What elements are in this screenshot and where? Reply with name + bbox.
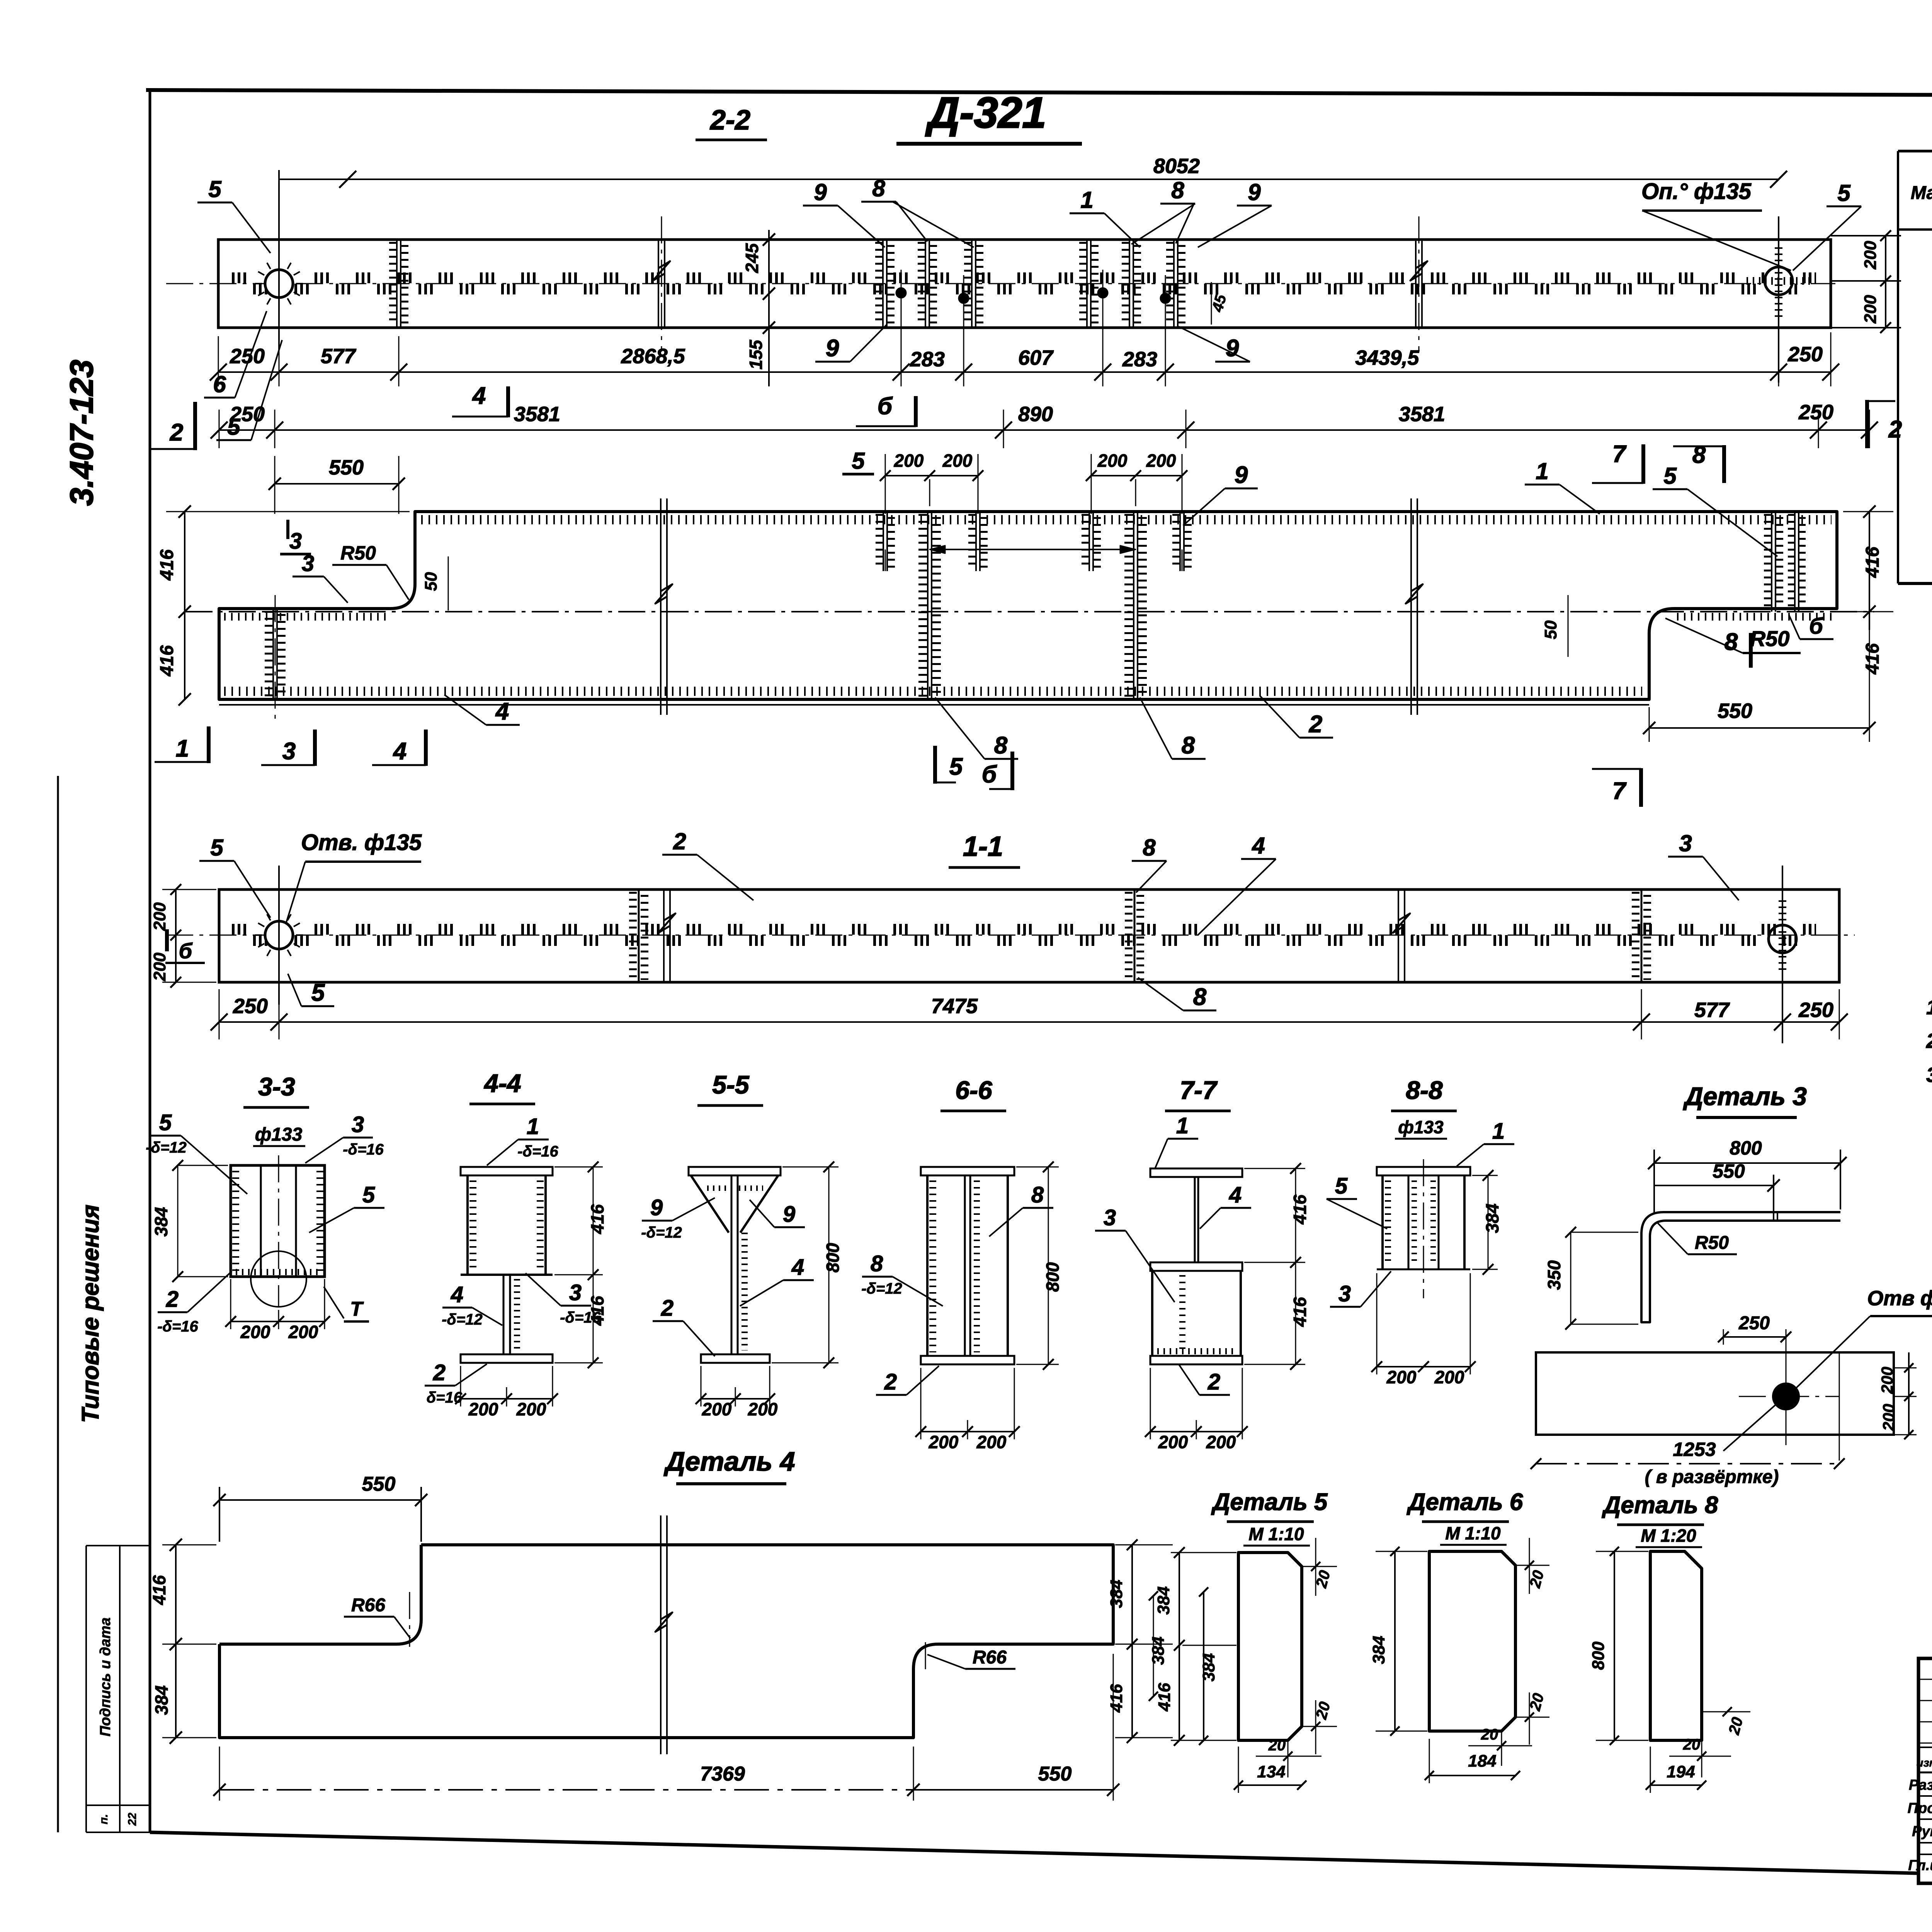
svg-text:Разраб.: Разраб. xyxy=(1909,1777,1932,1793)
svg-text:4: 4 xyxy=(791,1255,804,1280)
svg-text:1: 1 xyxy=(527,1114,539,1139)
svg-text:б: б xyxy=(179,939,193,963)
svg-text:2: 2 xyxy=(884,1369,897,1395)
svg-text:п.: п. xyxy=(97,1814,110,1825)
svg-text:8-8: 8-8 xyxy=(1406,1076,1443,1104)
svg-text:194: 194 xyxy=(1667,1762,1695,1781)
svg-text:200: 200 xyxy=(942,451,973,471)
svg-text:384: 384 xyxy=(151,1207,171,1237)
svg-text:200: 200 xyxy=(1386,1367,1417,1387)
svg-text:7475: 7475 xyxy=(931,995,978,1018)
svg-text:1: 1 xyxy=(1176,1113,1189,1138)
svg-text:R50: R50 xyxy=(1695,1233,1729,1253)
svg-text:8: 8 xyxy=(1171,177,1184,203)
svg-text:384: 384 xyxy=(1369,1636,1388,1664)
svg-text:Провер.: Провер. xyxy=(1908,1800,1932,1816)
svg-text:550: 550 xyxy=(1038,1763,1072,1785)
svg-text:384: 384 xyxy=(1482,1204,1502,1233)
svg-text:8: 8 xyxy=(872,175,885,201)
svg-text:5: 5 xyxy=(362,1182,375,1207)
svg-text:200: 200 xyxy=(748,1399,778,1419)
svg-text:384: 384 xyxy=(1107,1580,1126,1608)
svg-text:Деталь 8: Деталь 8 xyxy=(1602,1492,1718,1519)
svg-text:б: б xyxy=(982,761,997,788)
svg-text:7: 7 xyxy=(1612,778,1627,804)
svg-text:3: 3 xyxy=(569,1280,582,1305)
svg-text:3: 3 xyxy=(352,1112,364,1137)
svg-text:3581: 3581 xyxy=(1399,403,1445,426)
svg-text:2: 2 xyxy=(1207,1369,1220,1395)
svg-text:R66: R66 xyxy=(351,1595,385,1616)
svg-text:200: 200 xyxy=(1097,451,1128,471)
svg-text:2.: 2. xyxy=(1926,1029,1932,1053)
svg-text:5: 5 xyxy=(208,176,222,202)
svg-text:1: 1 xyxy=(176,735,189,762)
svg-text:9: 9 xyxy=(1226,335,1239,362)
svg-text:50: 50 xyxy=(1541,620,1560,639)
svg-text:416: 416 xyxy=(1862,547,1883,578)
svg-text:550: 550 xyxy=(329,456,364,479)
svg-text:200: 200 xyxy=(894,451,924,471)
svg-text:416: 416 xyxy=(1290,1194,1310,1225)
svg-text:R50: R50 xyxy=(340,542,376,564)
svg-text:3: 3 xyxy=(1338,1281,1351,1306)
svg-text:800: 800 xyxy=(1043,1262,1063,1292)
svg-text:Отв ф135: Отв ф135 xyxy=(1867,1287,1932,1310)
svg-text:3581: 3581 xyxy=(514,403,560,426)
svg-text:-δ=12: -δ=12 xyxy=(861,1280,902,1297)
svg-text:Деталь 3: Деталь 3 xyxy=(1683,1082,1807,1111)
svg-text:4: 4 xyxy=(472,383,486,409)
svg-text:8: 8 xyxy=(1143,835,1156,861)
svg-text:-δ=12: -δ=12 xyxy=(146,1139,187,1156)
svg-text:550: 550 xyxy=(362,1473,396,1495)
svg-text:6: 6 xyxy=(213,371,226,397)
svg-text:3.407-123: 3.407-123 xyxy=(63,360,100,506)
svg-text:R66: R66 xyxy=(973,1647,1007,1668)
svg-text:3: 3 xyxy=(1679,830,1692,856)
svg-text:416: 416 xyxy=(1107,1684,1126,1713)
svg-text:2: 2 xyxy=(166,1287,179,1312)
svg-text:550: 550 xyxy=(1713,1160,1745,1182)
svg-text:200: 200 xyxy=(1146,451,1176,471)
svg-text:8: 8 xyxy=(1193,984,1207,1010)
svg-text:8: 8 xyxy=(871,1251,883,1276)
svg-text:1.: 1. xyxy=(1926,996,1932,1019)
svg-text:3.: 3. xyxy=(1926,1063,1932,1087)
svg-text:50: 50 xyxy=(422,572,440,591)
svg-text:250: 250 xyxy=(233,995,268,1018)
svg-text:20: 20 xyxy=(1268,1737,1286,1754)
svg-text:200: 200 xyxy=(240,1322,270,1342)
svg-text:416: 416 xyxy=(587,1296,607,1326)
svg-text:9: 9 xyxy=(814,179,827,205)
svg-text:5: 5 xyxy=(1335,1173,1348,1199)
svg-text:9: 9 xyxy=(783,1202,795,1227)
svg-text:9: 9 xyxy=(1248,179,1261,205)
svg-text:2-2: 2-2 xyxy=(709,105,750,136)
svg-text:4-4: 4-4 xyxy=(483,1069,521,1097)
svg-text:б: б xyxy=(878,393,893,420)
svg-text:-δ=12: -δ=12 xyxy=(442,1311,483,1328)
svg-text:3439,5: 3439,5 xyxy=(1355,346,1419,369)
svg-text:Марка: Марка xyxy=(1911,183,1932,203)
svg-text:5: 5 xyxy=(159,1110,172,1135)
svg-text:134: 134 xyxy=(1257,1762,1285,1781)
svg-text:5: 5 xyxy=(311,980,325,1006)
svg-text:577: 577 xyxy=(321,345,357,368)
svg-text:200: 200 xyxy=(1879,1404,1898,1431)
svg-text:R50: R50 xyxy=(1750,626,1790,651)
svg-text:3: 3 xyxy=(1104,1205,1116,1230)
svg-text:384: 384 xyxy=(1154,1586,1173,1614)
svg-text:250: 250 xyxy=(230,403,265,426)
svg-text:283: 283 xyxy=(1122,348,1157,371)
svg-text:ф133: ф133 xyxy=(1398,1117,1444,1137)
svg-text:Подпись и дата: Подпись и дата xyxy=(97,1617,114,1736)
svg-text:Д-321: Д-321 xyxy=(1929,370,1932,483)
svg-text:5: 5 xyxy=(852,448,865,474)
svg-text:7: 7 xyxy=(1612,441,1627,468)
svg-text:Т: Т xyxy=(350,1298,364,1320)
svg-text:( в развёртке): ( в развёртке) xyxy=(1645,1467,1779,1487)
svg-text:5: 5 xyxy=(949,753,963,780)
svg-text:2: 2 xyxy=(170,419,183,446)
svg-text:1253: 1253 xyxy=(1673,1439,1716,1460)
svg-text:2868,5: 2868,5 xyxy=(621,345,685,368)
svg-text:2: 2 xyxy=(1888,416,1902,443)
svg-text:890: 890 xyxy=(1018,403,1053,426)
svg-text:8: 8 xyxy=(1725,629,1738,655)
svg-text:М 1:10: М 1:10 xyxy=(1445,1523,1501,1543)
svg-text:Гл.инжи: Гл.инжи xyxy=(1908,1857,1932,1874)
svg-text:416: 416 xyxy=(1155,1683,1174,1712)
svg-text:8: 8 xyxy=(1031,1182,1044,1207)
svg-text:8052: 8052 xyxy=(1153,155,1200,178)
svg-text:5-5: 5-5 xyxy=(712,1070,750,1099)
svg-text:1: 1 xyxy=(1536,458,1548,484)
svg-text:200: 200 xyxy=(288,1322,318,1342)
svg-text:250: 250 xyxy=(1787,343,1823,366)
svg-text:200: 200 xyxy=(1861,241,1880,270)
svg-text:5: 5 xyxy=(210,835,224,861)
svg-text:416: 416 xyxy=(587,1204,607,1234)
svg-text:200: 200 xyxy=(516,1399,546,1419)
svg-text:Типовые решения: Типовые решения xyxy=(77,1204,104,1423)
svg-text:Деталь 6: Деталь 6 xyxy=(1406,1489,1523,1515)
svg-text:Отв. ф135: Отв. ф135 xyxy=(301,830,422,855)
svg-text:-δ=16: -δ=16 xyxy=(157,1318,198,1335)
svg-text:5: 5 xyxy=(1837,180,1851,206)
svg-text:8: 8 xyxy=(994,732,1008,759)
svg-text:4: 4 xyxy=(1229,1182,1242,1207)
svg-text:384: 384 xyxy=(1149,1636,1168,1665)
svg-text:7-7: 7-7 xyxy=(1180,1076,1218,1104)
svg-text:384: 384 xyxy=(1199,1653,1218,1681)
svg-text:416: 416 xyxy=(157,645,177,677)
svg-text:Рук.гр: Рук.гр xyxy=(1912,1823,1932,1840)
svg-text:-δ=16: -δ=16 xyxy=(343,1141,384,1158)
svg-text:4: 4 xyxy=(1252,833,1265,859)
svg-text:577: 577 xyxy=(1694,998,1730,1022)
svg-text:200: 200 xyxy=(150,902,169,931)
svg-text:4: 4 xyxy=(495,698,509,725)
svg-text:416: 416 xyxy=(149,1575,169,1605)
svg-text:3: 3 xyxy=(282,738,296,765)
svg-text:2: 2 xyxy=(433,1360,446,1385)
svg-text:800: 800 xyxy=(1589,1641,1608,1670)
svg-text:Д-321: Д-321 xyxy=(925,88,1046,137)
svg-text:283: 283 xyxy=(910,348,945,371)
svg-text:20: 20 xyxy=(1481,1726,1498,1743)
svg-text:1: 1 xyxy=(1492,1119,1505,1144)
svg-text:1-1: 1-1 xyxy=(963,831,1003,862)
svg-text:Деталь 4: Деталь 4 xyxy=(664,1446,795,1476)
svg-text:Деталь 5: Деталь 5 xyxy=(1211,1489,1328,1515)
svg-text:9: 9 xyxy=(650,1195,663,1220)
svg-text:245: 245 xyxy=(742,243,762,273)
svg-text:6-6: 6-6 xyxy=(955,1076,993,1104)
svg-text:22: 22 xyxy=(126,1813,139,1826)
svg-text:5: 5 xyxy=(1663,463,1677,489)
svg-text:200: 200 xyxy=(1434,1367,1464,1387)
svg-text:8: 8 xyxy=(1182,732,1195,759)
svg-text:384: 384 xyxy=(151,1685,172,1715)
svg-text:изм: изм xyxy=(1916,1757,1932,1769)
svg-text:3: 3 xyxy=(289,529,302,554)
svg-text:250: 250 xyxy=(1738,1313,1770,1333)
svg-text:200: 200 xyxy=(1158,1432,1188,1452)
svg-text:200: 200 xyxy=(1878,1367,1896,1394)
svg-text:200: 200 xyxy=(150,952,169,981)
svg-text:20: 20 xyxy=(1683,1736,1701,1753)
svg-text:3: 3 xyxy=(302,551,314,576)
svg-text:200: 200 xyxy=(1861,295,1880,324)
svg-text:200: 200 xyxy=(468,1399,498,1419)
svg-text:800: 800 xyxy=(1730,1137,1762,1159)
svg-text:-δ=12: -δ=12 xyxy=(641,1224,682,1241)
svg-text:Оп.° ф135: Оп.° ф135 xyxy=(1641,179,1752,204)
svg-text:М 1:10: М 1:10 xyxy=(1248,1524,1304,1544)
svg-text:200: 200 xyxy=(1206,1432,1236,1452)
svg-text:416: 416 xyxy=(1862,643,1883,675)
svg-text:250: 250 xyxy=(1798,998,1833,1022)
svg-text:184: 184 xyxy=(1468,1752,1496,1770)
svg-text:-δ=16: -δ=16 xyxy=(517,1143,558,1160)
svg-text:3-3: 3-3 xyxy=(258,1072,295,1101)
svg-text:155: 155 xyxy=(746,339,766,369)
svg-text:416: 416 xyxy=(1290,1297,1310,1327)
svg-text:2: 2 xyxy=(673,828,686,854)
svg-text:ф133: ф133 xyxy=(255,1124,303,1145)
svg-text:416: 416 xyxy=(157,549,177,581)
svg-text:9: 9 xyxy=(826,335,839,362)
svg-text:200: 200 xyxy=(702,1399,732,1419)
svg-text:4: 4 xyxy=(393,738,406,765)
svg-text:М 1:20: М 1:20 xyxy=(1641,1526,1696,1546)
svg-text:350: 350 xyxy=(1544,1260,1564,1290)
svg-text:2: 2 xyxy=(1309,711,1322,738)
svg-text:9: 9 xyxy=(1235,462,1248,488)
svg-text:4: 4 xyxy=(451,1282,463,1307)
svg-text:7369: 7369 xyxy=(700,1763,745,1785)
svg-text:800: 800 xyxy=(823,1243,843,1272)
svg-text:1: 1 xyxy=(1080,187,1093,213)
svg-text:607: 607 xyxy=(1018,346,1054,369)
svg-text:200: 200 xyxy=(976,1432,1007,1452)
svg-text:2: 2 xyxy=(661,1296,673,1321)
svg-text:250: 250 xyxy=(1798,401,1833,424)
svg-text:550: 550 xyxy=(1718,699,1752,723)
svg-text:200: 200 xyxy=(929,1432,959,1452)
svg-text:б: б xyxy=(1809,614,1824,639)
